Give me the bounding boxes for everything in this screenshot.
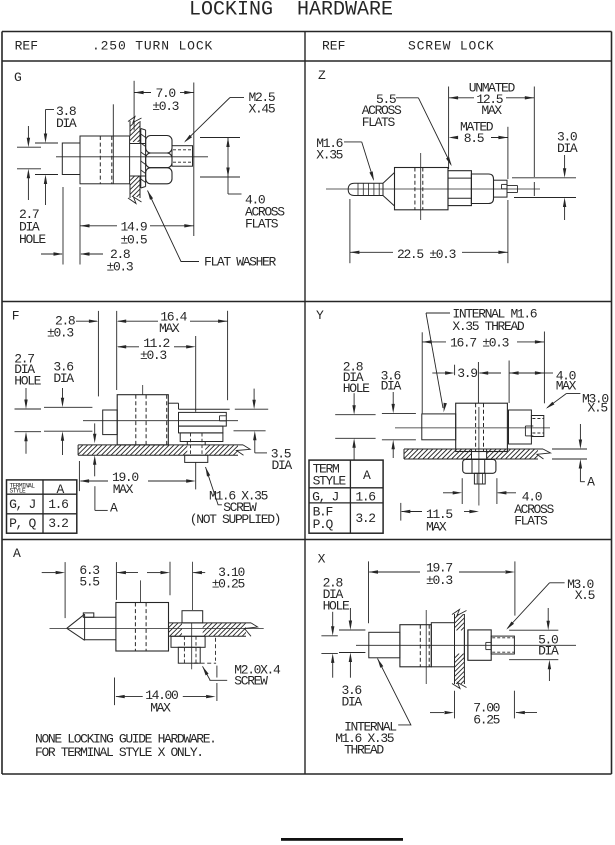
svg-text:HOLE: HOLE <box>19 232 46 247</box>
svg-text:MAX: MAX <box>426 520 447 535</box>
svg-text:REF: REF <box>15 39 38 54</box>
svg-text:MAX: MAX <box>481 103 502 118</box>
svg-text:SCREW LOCK: SCREW LOCK <box>408 39 495 54</box>
svg-text:FLAT WASHER: FLAT WASHER <box>204 255 277 270</box>
svg-text:MAX: MAX <box>159 321 180 336</box>
svg-text:±0.3: ±0.3 <box>152 99 178 114</box>
svg-text:LOCKING HARDWARE: LOCKING HARDWARE <box>189 0 393 22</box>
svg-text:HOLE: HOLE <box>323 598 350 613</box>
svg-text:THREAD: THREAD <box>344 742 384 757</box>
svg-text:3.2: 3.2 <box>48 516 68 531</box>
svg-text:22.5 ±0.3: 22.5 ±0.3 <box>397 247 456 262</box>
svg-text:16.7 ±0.3: 16.7 ±0.3 <box>450 336 509 351</box>
svg-text:1.6: 1.6 <box>355 489 375 504</box>
svg-text:DIA: DIA <box>557 141 578 156</box>
svg-text:DIA: DIA <box>56 116 77 131</box>
svg-text:.250 TURN LOCK: .250 TURN LOCK <box>92 39 213 54</box>
svg-text:±0.25: ±0.25 <box>212 577 245 592</box>
svg-text:DIA: DIA <box>342 694 363 709</box>
svg-text:(NOT SUPPLIED): (NOT SUPPLIED) <box>190 512 280 527</box>
svg-text:P, Q: P, Q <box>9 516 36 531</box>
svg-text:DIA: DIA <box>272 458 293 473</box>
svg-text:DIA: DIA <box>538 644 559 659</box>
svg-text:X.5: X.5 <box>575 588 595 603</box>
svg-text:±0.3: ±0.3 <box>107 260 133 275</box>
svg-text:±0.3: ±0.3 <box>47 326 73 341</box>
svg-text:REF: REF <box>322 39 345 54</box>
svg-text:STYLE: STYLE <box>10 488 26 495</box>
svg-text:SCREW: SCREW <box>234 674 268 689</box>
svg-text:P.Q: P.Q <box>313 517 334 532</box>
svg-text:DIA: DIA <box>381 379 402 394</box>
svg-text:3.9: 3.9 <box>457 366 477 381</box>
svg-text:G: G <box>14 70 21 85</box>
svg-text:5.5: 5.5 <box>79 575 99 590</box>
svg-text:8.5: 8.5 <box>464 131 484 146</box>
svg-text:1.6: 1.6 <box>48 497 68 512</box>
svg-text:3.2: 3.2 <box>355 511 375 526</box>
svg-text:MAX: MAX <box>150 701 171 716</box>
svg-text:6.25: 6.25 <box>473 713 499 728</box>
svg-text:F: F <box>12 309 19 324</box>
svg-text:X.5: X.5 <box>588 400 608 415</box>
svg-text:±0.3: ±0.3 <box>140 348 166 363</box>
svg-text:FOR TERMINAL STYLE X ONLY.: FOR TERMINAL STYLE X ONLY. <box>35 745 203 760</box>
svg-text:FLATS: FLATS <box>362 115 396 130</box>
svg-text:MAX: MAX <box>556 379 577 394</box>
svg-text:X.35: X.35 <box>316 147 342 162</box>
svg-text:DIA: DIA <box>53 371 74 386</box>
svg-text:HOLE: HOLE <box>343 381 370 396</box>
svg-text:X.35 THREAD: X.35 THREAD <box>452 319 525 334</box>
svg-text:FLATS: FLATS <box>245 217 279 232</box>
svg-text:±0.3: ±0.3 <box>426 573 452 588</box>
svg-text:±0.5: ±0.5 <box>121 233 147 248</box>
svg-text:G, J: G, J <box>9 497 35 512</box>
svg-text:X.45: X.45 <box>249 102 275 117</box>
svg-text:FLATS: FLATS <box>514 514 548 529</box>
svg-text:MAX: MAX <box>113 482 134 497</box>
svg-text:STYLE: STYLE <box>313 473 347 488</box>
svg-text:HOLE: HOLE <box>14 374 41 389</box>
svg-text:G, J: G, J <box>312 489 338 504</box>
